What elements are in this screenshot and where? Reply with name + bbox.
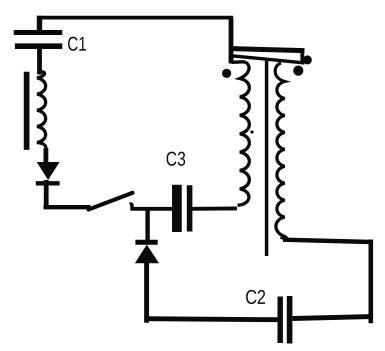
svg-text:C1: C1 bbox=[67, 34, 87, 56]
svg-text:C3: C3 bbox=[166, 149, 186, 171]
svg-text:C2: C2 bbox=[245, 287, 266, 309]
